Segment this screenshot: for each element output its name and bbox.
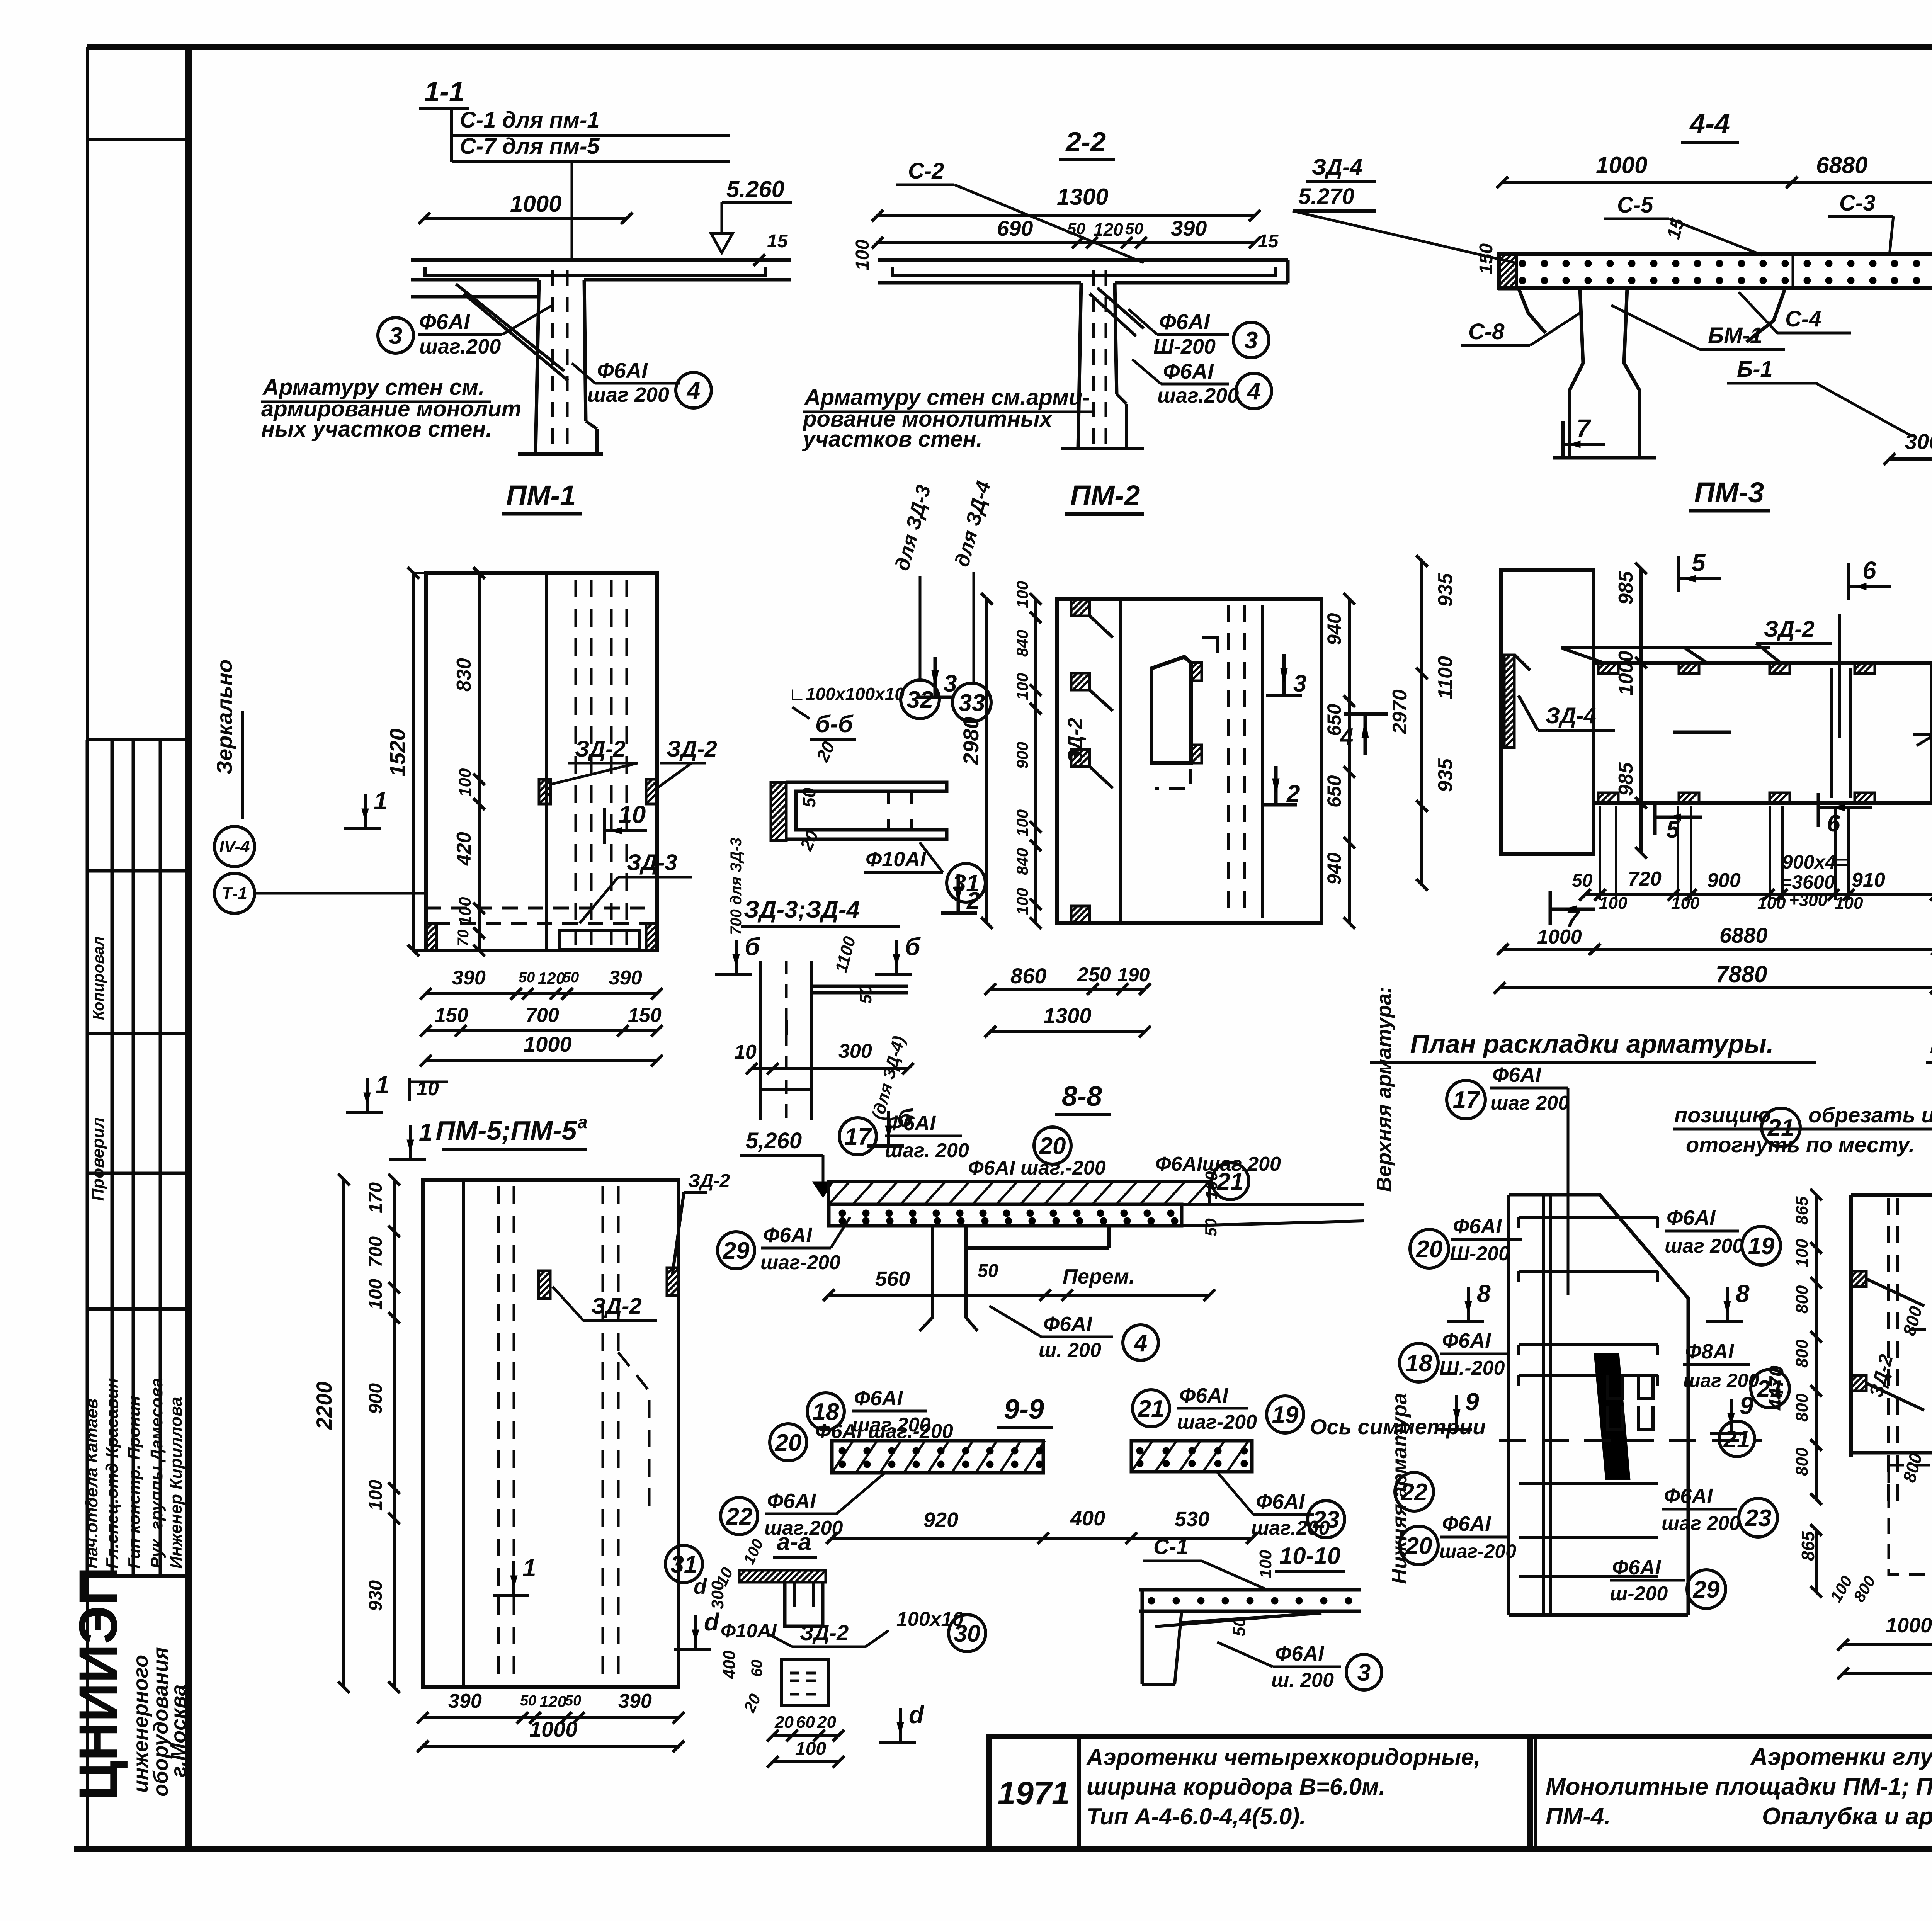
svg-text:4-4: 4-4 [1689,109,1730,139]
svg-text:ширина коридора В=6.0м.: ширина коридора В=6.0м. [1087,1774,1385,1800]
svg-text:Ф6АI: Ф6АI [419,309,470,334]
svg-text:15: 15 [1258,231,1279,252]
svg-text:100: 100 [795,1739,826,1759]
svg-text:Проверил: Проверил [88,1117,107,1201]
svg-text:1000: 1000 [1886,1614,1932,1637]
svg-text:Ф6АI: Ф6АI [1453,1215,1502,1238]
svg-text:Ф6АI: Ф6АI [1256,1490,1305,1513]
svg-text:15: 15 [767,231,788,252]
svg-text:ПМ-2: ПМ-2 [1070,479,1140,512]
svg-text:Верхняя арматура:: Верхняя арматура: [1372,986,1396,1192]
svg-text:Монолитные площадки ПМ-1; ПМ-2: Монолитные площадки ПМ-1; ПМ-2; ПМ-3;ПМ-… [1546,1773,1932,1800]
svg-text:Нач.отдела Катаев: Нач.отдела Катаев [82,1399,101,1569]
svg-text:4: 4 [1247,378,1260,405]
svg-text:560: 560 [875,1267,910,1290]
svg-text:б: б [905,933,921,960]
svg-text:шаг 200: шаг 200 [1490,1092,1569,1114]
svg-text:940: 940 [1323,613,1345,645]
svg-text:100: 100 [456,768,474,797]
svg-text:935: 935 [1434,758,1457,792]
svg-text:шаг.200: шаг.200 [419,335,501,358]
svg-text:3: 3 [389,323,402,349]
svg-text:100: 100 [1013,809,1031,836]
svg-text:ЗД-3: ЗД-3 [627,850,677,875]
svg-text:Ш-200: Ш-200 [1450,1243,1510,1265]
svg-text:ных участков стен.: ных участков стен. [261,416,492,442]
svg-text:1300: 1300 [1057,184,1108,210]
svg-text:940: 940 [1323,852,1345,885]
svg-text:ПМ-4: ПМ-4 [1930,1028,1932,1059]
svg-text:100: 100 [1671,894,1700,913]
svg-text:d: d [694,1574,707,1598]
svg-text:920: 920 [923,1508,958,1532]
svg-text:10-10: 10-10 [1279,1543,1341,1569]
svg-text:ЗД-2: ЗД-2 [800,1620,849,1645]
svg-text:ЦНИИЭП: ЦНИИЭП [68,1567,128,1800]
svg-text:20: 20 [774,1713,794,1732]
svg-text:участков стен.: участков стен. [802,427,983,452]
svg-text:50: 50 [1202,1218,1220,1236]
svg-text:800: 800 [1793,1447,1811,1476]
svg-text:20: 20 [1405,1533,1432,1559]
svg-text:190: 190 [1117,964,1150,986]
svg-text:инженерного: инженерного [129,1655,152,1793]
svg-text:100: 100 [1013,581,1031,608]
svg-text:50: 50 [1125,219,1143,238]
svg-text:Аэротенки четырехкоридорные,: Аэротенки четырехкоридорные, [1086,1744,1480,1770]
svg-text:900х4=: 900х4= [1782,851,1847,873]
svg-text:21: 21 [1723,1426,1750,1453]
svg-text:d: d [909,1701,925,1729]
svg-text:∟100х100х10: ∟100х100х10 [788,684,905,704]
svg-text:300: 300 [708,1581,727,1609]
svg-text:300: 300 [1905,429,1932,454]
svg-text:шаг 200: шаг 200 [1665,1235,1743,1257]
svg-text:720: 720 [1628,868,1662,890]
svg-text:Гл.спец.отд Красавин: Гл.спец.отд Красавин [103,1378,122,1569]
svg-text:17: 17 [1453,1087,1480,1113]
svg-text:Рук. группы Дамесова: Рук. группы Дамесова [147,1378,166,1569]
svg-text:50: 50 [978,1261,998,1281]
svg-text:Ф6АI: Ф6АI [854,1387,903,1410]
svg-text:9-9: 9-9 [1004,1394,1044,1425]
svg-text:8: 8 [1477,1280,1491,1307]
svg-text:1300: 1300 [1043,1003,1092,1028]
svg-text:ЗД-2: ЗД-2 [1064,718,1087,763]
svg-text:2970: 2970 [1389,689,1411,734]
svg-text:Ф6АI: Ф6АI [1159,309,1210,334]
svg-text:С-3: С-3 [1839,190,1875,216]
svg-text:Ф6АI: Ф6АI [1664,1484,1713,1508]
svg-text:100: 100 [366,1480,386,1511]
svg-text:100: 100 [1757,894,1786,913]
svg-text:ЗД-4: ЗД-4 [1312,155,1362,180]
svg-text:29: 29 [723,1238,750,1264]
svg-text:1100: 1100 [1434,656,1457,699]
svg-text:Зеркально: Зеркально [212,660,236,775]
svg-text:50: 50 [519,969,535,986]
svg-text:шаг 200: шаг 200 [1662,1512,1740,1535]
svg-text:5.260: 5.260 [726,176,784,202]
svg-text:20: 20 [1039,1133,1066,1159]
svg-text:Ф6АI: Ф6АI [1179,1384,1228,1407]
svg-text:22: 22 [726,1503,753,1530]
svg-text:50: 50 [1067,219,1085,238]
svg-text:120: 120 [539,1692,566,1710]
svg-text:2: 2 [1286,780,1300,807]
svg-text:Ф6АI: Ф6АI [763,1224,812,1247]
svg-text:50: 50 [1572,870,1593,891]
svg-text:33: 33 [959,690,985,716]
svg-text:Ф6АI: Ф6АI [1442,1329,1491,1352]
svg-text:шаг. 200: шаг. 200 [885,1139,969,1162]
svg-text:22: 22 [1401,1479,1428,1506]
svg-text:шаг 200: шаг 200 [1683,1370,1759,1391]
svg-text:План раскладки арматуры.: План раскладки арматуры. [1410,1029,1774,1059]
svg-text:Ф6АI: Ф6АI [1043,1312,1092,1336]
svg-text:21: 21 [1138,1396,1165,1422]
svg-text:Ф6АI: Ф6АI [1275,1642,1324,1665]
svg-text:23: 23 [1313,1506,1340,1533]
svg-text:Ф8АI: Ф8АI [1685,1340,1734,1363]
svg-text:1000: 1000 [1596,152,1647,178]
svg-text:С-2: С-2 [908,158,944,184]
svg-text:530: 530 [1175,1508,1209,1531]
svg-text:800: 800 [1793,1393,1811,1422]
svg-text:6: 6 [1862,556,1876,584]
svg-text:ш-200: ш-200 [1610,1583,1668,1605]
svg-text:Перем.: Перем. [1063,1265,1135,1288]
svg-text:60: 60 [796,1713,815,1732]
svg-text:100: 100 [1256,1550,1275,1578]
svg-text:900: 900 [1707,869,1741,892]
svg-text:а: а [578,1112,588,1132]
svg-text:С-7 для пм-5: С-7 для пм-5 [460,134,600,159]
svg-text:50: 50 [1230,1617,1249,1636]
svg-text:150: 150 [435,1004,468,1027]
svg-text:Гип констр. Пронин: Гип констр. Пронин [125,1396,144,1569]
svg-text:4: 4 [1339,724,1353,750]
svg-text:Опалубка и армирование.: Опалубка и армирование. [1762,1803,1932,1830]
svg-text:шаг-200: шаг-200 [1439,1540,1516,1562]
svg-text:20: 20 [817,1713,836,1732]
svg-text:19: 19 [1272,1402,1299,1428]
svg-text:обрезать и: обрезать и [1808,1103,1932,1127]
svg-text:1-1: 1-1 [424,76,464,107]
svg-text:Ф6АI: Ф6АI [1492,1063,1541,1086]
svg-text:50: 50 [520,1693,536,1709]
svg-text:170: 170 [366,1182,386,1213]
svg-text:100: 100 [1835,894,1863,913]
svg-text:Инженер Кириллова: Инженер Кириллова [167,1397,185,1569]
svg-text:2200: 2200 [312,1381,336,1430]
svg-text:1: 1 [419,1118,433,1146]
svg-text:Б-1: Б-1 [1737,357,1773,382]
svg-text:840: 840 [1013,848,1031,875]
svg-text:1000: 1000 [529,1717,578,1741]
svg-text:32: 32 [907,687,934,713]
svg-text:Ф6АI: Ф6АI [1612,1556,1661,1579]
svg-text:IV-4: IV-4 [219,837,250,856]
svg-text:5: 5 [1692,549,1706,576]
svg-text:ш. 200: ш. 200 [1039,1339,1101,1362]
svg-text:100: 100 [366,1279,386,1310]
svg-text:5.270: 5.270 [1298,184,1354,209]
svg-text:150: 150 [1476,243,1497,274]
svg-text:800: 800 [1793,1339,1811,1368]
svg-text:985: 985 [1615,762,1637,796]
svg-text:700: 700 [366,1236,386,1267]
svg-text:30: 30 [954,1620,981,1647]
svg-text:шаг-200: шаг-200 [1177,1411,1257,1433]
svg-text:100: 100 [1599,894,1628,913]
svg-text:1: 1 [376,1071,389,1099]
svg-text:а-а: а-а [777,1529,811,1555]
svg-text:ПМ-3: ПМ-3 [1694,476,1764,508]
svg-text:Ф6АI: Ф6АI [767,1489,816,1513]
svg-text:18: 18 [1406,1350,1432,1377]
svg-text:ЗД-2: ЗД-2 [591,1294,642,1319]
svg-text:7: 7 [1577,414,1592,442]
svg-text:400: 400 [720,1650,739,1679]
svg-text:С-8: С-8 [1468,319,1505,344]
svg-text:1000: 1000 [1537,926,1582,948]
svg-text:930: 930 [366,1580,386,1611]
svg-text:7880: 7880 [1716,961,1767,987]
svg-text:С-4: С-4 [1785,306,1821,331]
svg-text:31: 31 [953,870,980,897]
svg-text:6: 6 [1827,810,1840,837]
svg-text:Ф6АI: Ф6АI [1667,1206,1716,1229]
svg-text:Ф6АI: Ф6АI [1442,1512,1491,1535]
svg-text:19: 19 [1748,1233,1775,1260]
svg-text:20: 20 [1416,1236,1443,1263]
svg-text:700 для ЗД-3: 700 для ЗД-3 [728,838,745,935]
svg-text:4: 4 [1133,1330,1147,1357]
svg-text:Ф10АI: Ф10АI [866,848,926,871]
svg-text:Ш.-200: Ш.-200 [1439,1357,1505,1379]
svg-text:3: 3 [1293,670,1306,697]
svg-text:ПМ-1: ПМ-1 [506,479,576,512]
svg-text:900: 900 [366,1383,386,1414]
svg-text:10: 10 [734,1041,757,1063]
svg-text:830: 830 [453,658,475,692]
svg-text:70: 70 [455,930,472,947]
svg-text:6880: 6880 [1719,923,1768,947]
svg-text:60: 60 [748,1660,765,1677]
svg-text:50: 50 [856,985,875,1004]
svg-text:отогнуть по месту.: отогнуть по месту. [1686,1132,1915,1157]
svg-text:3: 3 [944,670,957,697]
svg-text:6880: 6880 [1816,152,1867,178]
svg-text:50: 50 [799,787,819,807]
svg-text:8-8: 8-8 [1062,1081,1102,1112]
svg-text:шаг 200: шаг 200 [587,383,669,406]
svg-text:d: d [704,1608,720,1636]
svg-text:4470: 4470 [1765,1365,1788,1411]
svg-text:390: 390 [609,967,642,989]
svg-text:100: 100 [1202,1171,1221,1200]
svg-text:БМ-1: БМ-1 [1708,323,1762,348]
svg-text:23: 23 [1745,1505,1772,1532]
svg-text:1000: 1000 [510,191,561,217]
svg-text:3: 3 [1357,1659,1371,1686]
svg-text:б-б: б-б [815,711,854,738]
svg-text:985: 985 [1615,571,1637,605]
svg-text:3: 3 [1245,327,1258,354]
svg-text:20: 20 [775,1430,802,1456]
svg-text:Тип А-4-6.0-4,4(5.0).: Тип А-4-6.0-4,4(5.0). [1087,1804,1306,1829]
svg-text:б: б [897,1104,913,1132]
svg-text:10: 10 [618,801,646,828]
svg-text:935: 935 [1434,573,1457,607]
svg-text:9: 9 [1465,1388,1479,1416]
svg-text:ЗД-4: ЗД-4 [1546,703,1596,728]
svg-text:400: 400 [1070,1507,1105,1530]
svg-text:120: 120 [1094,219,1123,240]
svg-text:650: 650 [1323,775,1345,807]
svg-text:б: б [745,933,761,960]
svg-text:700: 700 [526,1004,559,1027]
svg-text:Ф10АI: Ф10АI [721,1620,777,1642]
svg-text:910: 910 [1852,869,1885,891]
svg-text:100: 100 [1793,1239,1811,1267]
svg-text:ЗД-3;ЗД-4: ЗД-3;ЗД-4 [744,896,860,923]
svg-text:Копировал: Копировал [90,936,107,1020]
svg-text:840: 840 [1013,630,1031,657]
svg-text:2980: 2980 [959,717,983,765]
svg-text:ПМ-5;ПМ-5: ПМ-5;ПМ-5 [435,1115,577,1146]
svg-text:865: 865 [1793,1196,1811,1225]
svg-text:390: 390 [452,967,486,989]
svg-text:100: 100 [1013,888,1031,915]
svg-text:420: 420 [453,832,475,866]
svg-text:390: 390 [448,1690,482,1712]
svg-text:1: 1 [522,1554,536,1582]
svg-text:ПМ-4.: ПМ-4. [1546,1803,1611,1830]
svg-text:900: 900 [1013,742,1031,769]
svg-text:120: 120 [538,969,565,987]
svg-text:100: 100 [852,240,873,270]
svg-text:150: 150 [628,1004,662,1027]
svg-text:800: 800 [1793,1285,1811,1314]
svg-text:1520: 1520 [385,728,410,777]
svg-text:300: 300 [838,1040,872,1062]
svg-text:8: 8 [1736,1280,1750,1307]
svg-text:50: 50 [563,969,579,986]
svg-text:1971: 1971 [998,1775,1070,1811]
svg-text:Ш-200: Ш-200 [1153,335,1216,358]
svg-text:ЗД-2: ЗД-2 [667,736,717,762]
svg-text:ЗД-2: ЗД-2 [575,736,626,762]
svg-text:29: 29 [1693,1576,1720,1603]
svg-text:100: 100 [456,897,474,925]
svg-text:Ф6АI шаг.-200: Ф6АI шаг.-200 [968,1157,1106,1179]
svg-text:ЗД-2: ЗД-2 [688,1171,730,1191]
svg-text:Аэротенки глубиной 4,4м.: Аэротенки глубиной 4,4м. [1750,1744,1932,1770]
svg-text:1000: 1000 [1615,651,1637,695]
svg-text:390: 390 [1171,216,1207,240]
svg-text:шаг-200: шаг-200 [760,1251,840,1274]
svg-text:С-1: С-1 [1153,1534,1188,1559]
svg-text:5: 5 [1666,816,1680,843]
svg-text:390: 390 [618,1690,652,1712]
svg-text:ш. 200: ш. 200 [1271,1669,1334,1691]
svg-text:Ф6АI: Ф6АI [597,358,648,382]
svg-text:Ф6АI: Ф6АI [1163,359,1214,383]
svg-text:4: 4 [686,377,700,404]
svg-text:шаг.200: шаг.200 [1157,384,1239,407]
svg-text:1000: 1000 [524,1032,572,1056]
svg-text:Т-1: Т-1 [222,884,247,903]
svg-text:г.Москва: г.Москва [167,1685,190,1777]
svg-text:С-5: С-5 [1617,192,1653,218]
svg-text:250: 250 [1077,964,1111,986]
svg-text:50: 50 [565,1693,581,1709]
svg-text:=3600: =3600 [1781,871,1835,893]
svg-text:5,260: 5,260 [746,1128,802,1153]
svg-text:2-2: 2-2 [1065,127,1106,158]
svg-text:позицию: позицию [1674,1103,1771,1127]
svg-text:860: 860 [1010,964,1046,988]
svg-text:690: 690 [997,216,1033,240]
svg-text:100: 100 [1013,673,1031,700]
svg-text:С-1 для пм-1: С-1 для пм-1 [460,107,600,133]
svg-text:ЗД-2: ЗД-2 [1764,617,1815,642]
svg-text:1: 1 [374,787,388,815]
